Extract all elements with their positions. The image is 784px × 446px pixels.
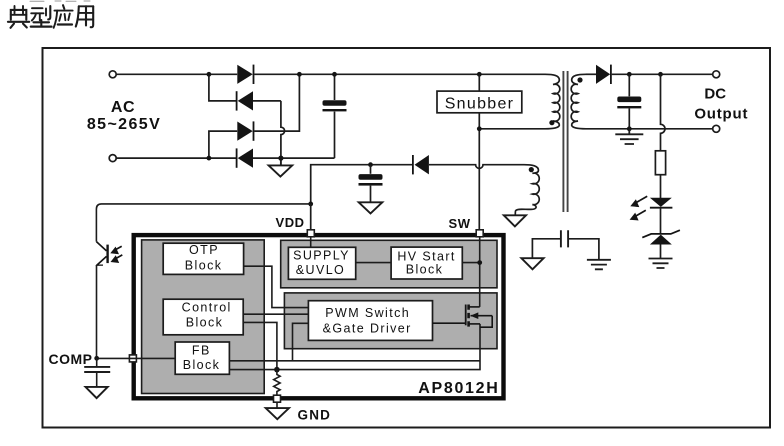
pin VDD: [307, 230, 314, 237]
capacitor C4 (COMP): [84, 358, 110, 386]
node dot D3 to rail: [297, 72, 302, 77]
wire zener to earth ground: [660, 245, 662, 259]
svg-text:AP8012H: AP8012H: [418, 380, 499, 397]
zener D8: [642, 230, 680, 244]
diode D4: [237, 148, 253, 167]
transformer phase dot secondary: [577, 77, 582, 82]
capacitor C3 (output): [617, 97, 641, 109]
node dot C1 top: [332, 72, 337, 77]
channel segments: [467, 305, 470, 327]
opto light arrow 2: [111, 255, 123, 263]
wire Y-cap left to primary ground: [532, 239, 561, 258]
IC top-right gray module: [281, 240, 497, 287]
transformer T1 primary winding: [545, 74, 560, 129]
wire sense line to source: [229, 324, 480, 370]
wire C1 stub top: [334, 74, 336, 100]
IC left gray module: [142, 240, 265, 394]
block OTP: [163, 243, 243, 274]
transformer T1 secondary winding: [571, 74, 586, 129]
capacitor C2 (VDD): [359, 174, 383, 186]
wire OTP to PWM block: [244, 266, 309, 307]
svg-text:Output: Output: [694, 105, 748, 122]
transformer core: [563, 71, 567, 212]
earth ground Y-cap right: [587, 260, 611, 270]
svg-text:GND: GND: [298, 407, 332, 422]
char 应: [54, 5, 73, 28]
capacitor C5 (Y-cap): [561, 230, 568, 247]
gate plate: [465, 305, 467, 326]
svg-text:DC: DC: [704, 86, 726, 103]
svg-text:Block: Block: [406, 263, 444, 277]
block Control: [163, 299, 243, 335]
wire snubber vertical rail to SW pin: [478, 74, 480, 230]
wire ground junction to C1 bottom: [281, 157, 335, 159]
svg-text:SW: SW: [449, 216, 471, 231]
ground auxiliary winding: [504, 215, 526, 226]
node dot AC2/D3 branch: [207, 156, 212, 161]
node dot DC- junction: [278, 156, 283, 161]
wire Y-cap right to earth ground: [568, 239, 599, 260]
wire DC- vertical with hop over D3 wire: [281, 101, 285, 158]
svg-text:Block: Block: [183, 358, 221, 372]
resistor R2 (sense, zigzag): [274, 370, 280, 397]
wire HV block to SW line: [462, 262, 479, 264]
schematic frame border: [43, 48, 771, 428]
ground GND pin: [266, 408, 289, 419]
wire opto emitter down to COMP node: [96, 265, 98, 358]
snubber box: [437, 91, 522, 113]
node dot sense junction: [274, 367, 280, 373]
wire COMP line: [97, 357, 176, 359]
transformer phase dot primary: [549, 120, 554, 125]
svg-text:AC: AC: [111, 99, 135, 116]
pin COMP: [129, 355, 136, 362]
node dot sense divider top: [658, 72, 663, 77]
wire LED to zener: [660, 208, 662, 234]
wire D6 to DC+ terminal: [612, 73, 713, 75]
gate wire: [433, 322, 466, 324]
diode D3: [237, 121, 253, 140]
block HV Start Block: [391, 247, 462, 279]
body arrow line: [471, 315, 493, 317]
char 型: [31, 6, 52, 27]
wire D5 to aux winding with hop over SW vertical: [429, 165, 524, 169]
DC output terminal top: [713, 71, 720, 78]
svg-text:&UVLO: &UVLO: [296, 263, 345, 277]
wire FB out to source sense line: [229, 360, 480, 362]
diode D1: [237, 65, 253, 84]
wire secondary bottom to DC- terminal: [586, 128, 713, 130]
LED light arrow 2: [630, 210, 646, 220]
wire AC1 branch down to D2: [209, 74, 236, 101]
wire primary bottom to snubber vertical: [479, 128, 545, 130]
node dot primary bottom / SW: [477, 126, 482, 131]
AC input terminal bottom: [109, 155, 116, 162]
LED light arrow 1: [630, 196, 647, 207]
svg-text:Block: Block: [185, 258, 223, 272]
wire bottom AC line: [116, 157, 236, 159]
svg-text:Control: Control: [182, 300, 232, 314]
wire C3 stub top: [628, 74, 630, 96]
node dot snubber rail: [477, 72, 482, 77]
wire VDD pin stub to SUPPLY block: [310, 236, 312, 247]
diode D5 (aux rectifier): [413, 155, 429, 174]
svg-text:Snubber: Snubber: [445, 95, 515, 112]
wire FB branch up to PWM block: [293, 323, 309, 361]
wire C1 stub bottom: [334, 112, 336, 159]
wire secondary top to D6: [586, 73, 596, 75]
wire GND pin to ground symbol: [276, 402, 278, 408]
wire C2 stub bottom: [370, 186, 372, 203]
MOSFET Q2: [433, 305, 493, 328]
opto transistor Q1 collector wire to VDD node: [96, 204, 310, 242]
svg-text:PWM Switch: PWM Switch: [325, 306, 410, 320]
IC U1 AP8012H outer body: [134, 235, 504, 398]
ground C2: [359, 202, 383, 213]
transformer auxiliary winding: [515, 165, 539, 215]
node dot COMP junction: [94, 356, 99, 361]
wire C2 stub top: [370, 165, 372, 174]
opto transistor Q1: [96, 242, 107, 266]
char 典: [8, 6, 29, 28]
wire D3 cathode to DC+ rail: [254, 74, 299, 131]
capacitor C1 (bulk): [323, 100, 347, 111]
pin GND: [274, 395, 281, 402]
opto LED D7: [650, 198, 673, 208]
resistor R1: [655, 151, 665, 175]
wire D2 anode to DC- vertical: [253, 100, 281, 102]
wire SW pin to MOSFET drain: [479, 236, 481, 307]
block SUPPLY&UVLO: [288, 247, 355, 279]
svg-text:HV Start: HV Start: [397, 249, 455, 263]
svg-text:&Gate Driver: &Gate Driver: [323, 322, 412, 336]
block PWM Switch & Gate Driver: [308, 301, 432, 341]
MOSFET body arrow head: [470, 312, 478, 319]
opto light arrow 1: [110, 246, 121, 254]
AC input terminal top: [109, 71, 116, 78]
wire C3 stub bottom: [628, 108, 630, 128]
node dot VDD junction: [308, 202, 313, 207]
svg-text:85~265V: 85~265V: [87, 116, 161, 133]
pin SW: [476, 230, 483, 237]
node dot HV-SW: [477, 260, 482, 265]
wire DC+ rail after D1: [254, 73, 545, 75]
wire Control out1 to PWM block: [243, 313, 308, 315]
node dot C3 top: [627, 72, 632, 77]
wire top AC rail: [116, 73, 237, 75]
svg-text:VDD: VDD: [276, 215, 305, 230]
wire AC2 branch up to D3: [209, 131, 237, 158]
transformer phase dot auxiliary: [529, 167, 534, 172]
node dot C3 bottom: [627, 126, 632, 131]
wire DC+ down to R1 with hop over DC- wire: [661, 74, 666, 150]
DC output terminal bottom: [713, 125, 720, 132]
body tie: [480, 316, 492, 328]
node dot C2 tap: [368, 162, 373, 167]
svg-text:FB: FB: [192, 344, 211, 358]
source stub: [470, 323, 481, 325]
wire aux diode line: VDD corner to D5: [311, 165, 412, 204]
diode D6 (output rectifier): [596, 65, 611, 84]
svg-text:Block: Block: [186, 316, 224, 330]
earth ground zener: [649, 259, 673, 269]
wire R1 to LED: [660, 175, 662, 198]
ground COMP cap: [86, 387, 108, 398]
node dot AC1/D2 branch: [207, 72, 212, 77]
diode D2: [237, 91, 253, 110]
svg-text:SUPPLY: SUPPLY: [293, 249, 350, 263]
svg-text:OTP: OTP: [189, 243, 219, 257]
ground primary (bridge DC-): [269, 158, 293, 177]
title 典型应用 (drawn strokes): [8, 1, 93, 28]
ground Y-cap left: [521, 258, 543, 269]
wire D4 to ground junction: [253, 157, 281, 159]
clipped text fragments above title: [30, 0, 90, 2]
wire VDD junction down to pin: [310, 204, 312, 230]
wire Control out2 down to sense node: [243, 322, 277, 369]
svg-text:COMP: COMP: [49, 351, 93, 367]
earth ground output cap: [615, 129, 643, 144]
char 用: [76, 6, 93, 27]
block FB: [175, 342, 229, 374]
drain stub: [470, 306, 480, 308]
IC bottom-right gray module: [284, 293, 497, 349]
wire SUPPLY to HV block: [356, 262, 391, 264]
